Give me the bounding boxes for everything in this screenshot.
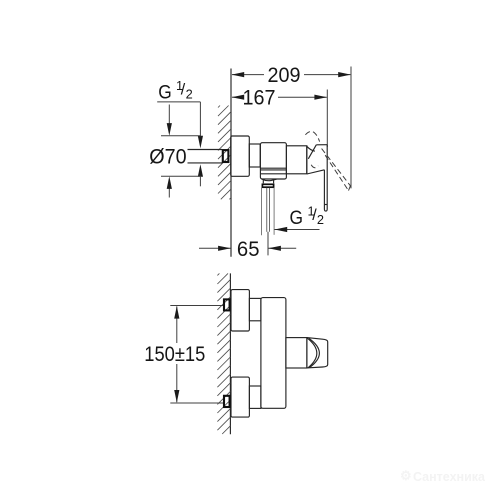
cartridge cap (lever closed)	[307, 145, 327, 174]
svg-text:2: 2	[186, 86, 193, 101]
dimension 167	[232, 96, 327, 98]
svg-text:G: G	[158, 82, 172, 103]
lever knob end cap	[307, 338, 328, 368]
label G 1/2 (lower)	[290, 204, 325, 229]
dimension 150±15	[176, 306, 178, 402]
shower outlet boss	[262, 179, 277, 181]
bottom inlet nut in wall	[224, 396, 230, 407]
dashed cap lower arc	[311, 165, 318, 168]
svg-text:209: 209	[268, 64, 301, 87]
extension line for 167 (right)	[326, 90, 328, 148]
dimension 65	[199, 247, 296, 249]
svg-text:Сантехника: Сантехника	[413, 470, 486, 484]
neck between flange and body	[249, 144, 260, 167]
svg-text:150±15: 150±15	[144, 343, 205, 366]
top inlet nut in wall	[224, 299, 230, 310]
top connector	[249, 298, 261, 320]
dashed cap outline (alternate position)	[305, 131, 319, 141]
svg-text:⚙: ⚙	[400, 468, 412, 483]
svg-text:G: G	[290, 208, 304, 229]
wall line (bottom view)	[229, 273, 231, 434]
extension line for 65 (right)	[267, 232, 269, 256]
dimension 209	[232, 74, 350, 76]
label G 1/2 (top)	[158, 78, 193, 103]
leader G1/2 lower	[274, 229, 319, 231]
svg-text:2: 2	[317, 212, 324, 227]
lever handle (solid, down position)	[324, 145, 327, 211]
wall hatching (bottom view)	[217, 273, 230, 434]
bottom connector	[249, 386, 261, 408]
escutcheon flange (Ø70)	[231, 136, 250, 176]
dimension Ø70 arrows (outside)	[168, 105, 170, 198]
mixer body	[260, 143, 286, 179]
mixer body (front)	[261, 298, 286, 409]
outlet nipple	[263, 179, 273, 183]
body internal lines	[260, 168, 286, 174]
svg-text:167: 167	[243, 87, 276, 110]
knob end arcs	[307, 338, 316, 368]
cartridge housing section	[286, 146, 306, 174]
extension line for 209 (right)	[350, 67, 352, 189]
shower hose connector pipe	[262, 188, 275, 236]
extension lines 150±15	[170, 306, 223, 404]
dashed lever (alternate position)	[322, 149, 351, 191]
wall line (top view)	[230, 69, 232, 257]
bottom inlet escutcheon block	[231, 377, 249, 417]
outlet nut	[262, 184, 273, 187]
svg-text:65: 65	[237, 238, 260, 261]
svg-text:Ø70: Ø70	[149, 146, 186, 169]
lever knob stem	[286, 338, 307, 368]
top inlet escutcheon block	[231, 290, 249, 331]
dimension Ø70 extension lines	[161, 136, 201, 177]
leader G1/2 top: underline and arrow to pipe	[157, 102, 200, 186]
supply pipe (top view)	[188, 150, 223, 163]
supply pipe nut in wall	[223, 150, 229, 162]
wall hatching (top view)	[218, 106, 231, 200]
